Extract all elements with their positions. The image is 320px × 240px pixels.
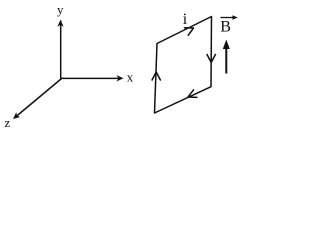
- svg-text:z: z: [5, 115, 11, 130]
- svg-text:i: i: [183, 11, 188, 28]
- svg-text:x: x: [127, 69, 134, 84]
- svg-text:B: B: [220, 19, 231, 36]
- svg-text:y: y: [57, 2, 64, 17]
